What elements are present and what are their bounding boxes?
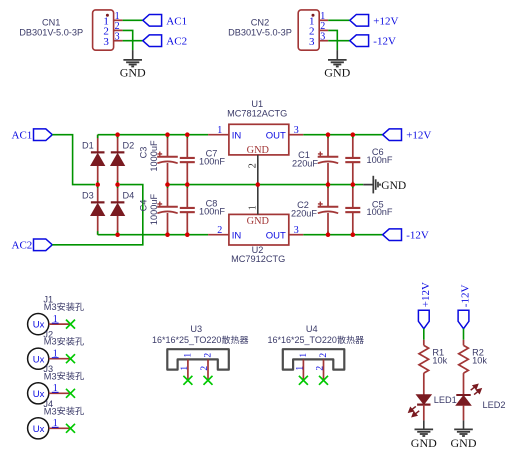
svg-text:DB301V-5.0-3P: DB301V-5.0-3P	[228, 27, 292, 37]
svg-text:C4: C4	[138, 200, 148, 212]
svg-text:GND: GND	[451, 436, 477, 450]
svg-text:2: 2	[217, 225, 222, 236]
svg-text:OUT: OUT	[266, 130, 286, 141]
svg-text:AC2: AC2	[12, 240, 33, 252]
svg-text:CN2: CN2	[251, 17, 269, 27]
svg-text:U3: U3	[190, 324, 202, 334]
svg-text:DB301V-5.0-3P: DB301V-5.0-3P	[19, 27, 83, 37]
svg-text:+12V: +12V	[373, 15, 398, 27]
svg-text:AC1: AC1	[166, 15, 187, 27]
svg-text:100nF: 100nF	[199, 156, 225, 166]
svg-text:IN: IN	[232, 230, 242, 241]
svg-text:16*16*25_TO220: 16*16*25_TO220	[152, 335, 221, 345]
svg-text:GND: GND	[247, 216, 270, 227]
svg-text:3: 3	[309, 36, 315, 48]
svg-text:D2: D2	[123, 141, 135, 151]
svg-text:+12V: +12V	[406, 130, 431, 142]
svg-text:U4: U4	[306, 324, 318, 334]
svg-text:GND: GND	[381, 180, 406, 192]
svg-text:M3: M3	[44, 337, 57, 347]
svg-text:1000uF: 1000uF	[149, 140, 159, 172]
svg-text:3: 3	[103, 36, 109, 48]
svg-text:IN: IN	[232, 130, 242, 141]
svg-text:AC2: AC2	[166, 36, 187, 48]
svg-text:3: 3	[320, 31, 325, 42]
svg-text:100nF: 100nF	[366, 207, 392, 217]
svg-text:GND: GND	[411, 436, 437, 450]
svg-text:1: 1	[295, 366, 305, 371]
svg-text:2: 2	[200, 366, 210, 371]
svg-text:2: 2	[319, 353, 329, 358]
svg-text:100nF: 100nF	[366, 155, 392, 165]
svg-text:+12V: +12V	[420, 282, 432, 307]
svg-text:1: 1	[299, 353, 309, 358]
svg-text:220uF: 220uF	[292, 159, 318, 169]
svg-text:GND: GND	[120, 66, 146, 80]
svg-text:10k: 10k	[472, 356, 487, 366]
svg-text:-12V: -12V	[406, 230, 429, 242]
svg-text:OUT: OUT	[266, 230, 286, 241]
svg-text:1: 1	[180, 366, 190, 371]
svg-text:GND: GND	[247, 145, 270, 156]
svg-text:16*16*25_TO220: 16*16*25_TO220	[268, 335, 337, 345]
svg-text:100nF: 100nF	[199, 206, 225, 216]
svg-text:2: 2	[316, 366, 326, 371]
svg-text:M3: M3	[44, 406, 57, 416]
svg-text:1: 1	[183, 353, 193, 358]
svg-text:10k: 10k	[432, 356, 447, 366]
svg-text:M3: M3	[44, 302, 57, 312]
svg-text:LED1: LED1	[434, 395, 457, 405]
svg-text:D1: D1	[82, 141, 94, 151]
svg-text:D3: D3	[82, 191, 94, 201]
svg-text:CN1: CN1	[42, 17, 60, 27]
svg-text:3: 3	[115, 31, 120, 42]
svg-text:MC7812ACTG: MC7812ACTG	[227, 109, 287, 119]
svg-text:GND: GND	[324, 66, 350, 80]
svg-text:3: 3	[294, 125, 299, 136]
svg-text:1000uF: 1000uF	[149, 194, 159, 226]
svg-text:1: 1	[217, 125, 222, 136]
svg-text:-12V: -12V	[373, 36, 396, 48]
svg-text:-12V: -12V	[460, 285, 472, 308]
svg-text:1: 1	[248, 205, 259, 210]
svg-text:AC1: AC1	[12, 130, 33, 142]
svg-text:D4: D4	[123, 191, 135, 201]
svg-text:LED2: LED2	[483, 400, 506, 410]
svg-text:MC7912CTG: MC7912CTG	[231, 254, 285, 264]
svg-text:2: 2	[248, 163, 259, 168]
svg-text:3: 3	[294, 225, 299, 236]
svg-text:2: 2	[203, 353, 213, 358]
svg-text:Ux: Ux	[33, 424, 45, 435]
svg-text:M3: M3	[44, 371, 57, 381]
svg-text:220uF: 220uF	[291, 209, 317, 219]
svg-text:C3: C3	[138, 147, 148, 159]
